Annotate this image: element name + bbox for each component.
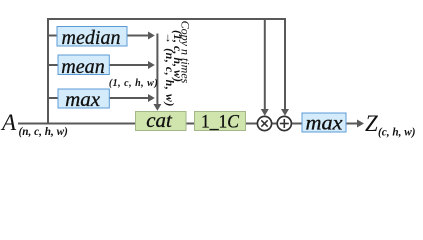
svg-text:(1, c, h, w): (1, c, h, w): [109, 78, 158, 89]
wire: skip-connection left vertical: [47, 19, 49, 124]
wire: max to collector arrow: [109, 97, 148, 99]
wire: vertical into multiply node: [264, 19, 266, 110]
svg-text:1_1C: 1_1C: [201, 113, 240, 133]
svg-text:(n, c, h, w): (n, c, h, w): [19, 126, 69, 138]
wire: collector vertical into cat: [156, 34, 158, 105]
svg-text:→ (n, c, h, w): → (n, c, h, w): [163, 32, 177, 107]
wire: skip-connection top horizontal: [47, 18, 286, 20]
wire: multiply to add: [272, 123, 278, 125]
node add: [277, 116, 291, 130]
wire: 1_1C to multiply: [245, 123, 258, 125]
node multiply: [257, 116, 271, 130]
svg-text:max: max: [306, 113, 343, 134]
wire: max to Z arrow: [346, 123, 358, 125]
box mean: [58, 55, 109, 75]
svg-text:(c, h, w): (c, h, w): [378, 127, 416, 139]
wire: stub to max: [48, 97, 59, 99]
wire: main line A to cat: [18, 123, 136, 125]
wire: vertical into add node: [284, 19, 286, 110]
wire: median to collector arrow: [127, 35, 149, 37]
box cat: [136, 112, 187, 131]
box 1_1C: [195, 112, 246, 131]
box median: [57, 27, 127, 47]
box max (left): [58, 89, 109, 108]
wire: mean to collector arrow: [109, 64, 148, 66]
wire: cat to 1_1C: [187, 123, 196, 125]
svg-text:cat: cat: [146, 110, 173, 132]
svg-text:mean: mean: [61, 56, 105, 78]
svg-text:max: max: [65, 89, 100, 111]
svg-text:A: A: [0, 110, 17, 135]
svg-text:median: median: [62, 27, 121, 49]
wire: stub to median: [48, 35, 58, 37]
wire: add to max: [292, 123, 303, 125]
svg-text:Z: Z: [365, 111, 378, 136]
box max (right): [302, 113, 346, 132]
wire: stub to mean: [48, 64, 59, 66]
